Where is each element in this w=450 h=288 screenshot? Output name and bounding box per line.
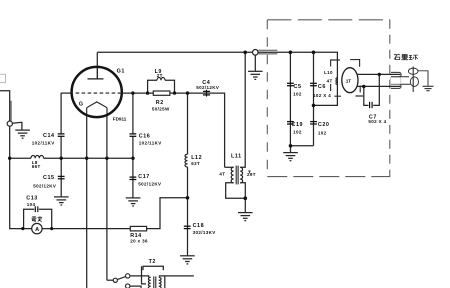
svg-text:2T: 2T (157, 73, 163, 78)
svg-text:63T: 63T (191, 161, 200, 166)
svg-text:302/13KV: 302/13KV (193, 230, 216, 235)
svg-text:C6: C6 (318, 84, 326, 90)
svg-text:C5: C5 (294, 84, 302, 90)
svg-text:102: 102 (318, 130, 327, 135)
svg-text:R2: R2 (156, 100, 164, 106)
svg-text:502/12KV: 502/12KV (33, 183, 56, 188)
svg-text:T2: T2 (149, 259, 156, 265)
svg-text:C17: C17 (138, 174, 150, 180)
svg-text:20 x 36: 20 x 36 (130, 238, 148, 243)
svg-text:102/11KV: 102/11KV (139, 141, 162, 146)
svg-text:1T: 1T (346, 79, 352, 84)
svg-text:C18: C18 (193, 223, 205, 229)
svg-text:L10: L10 (324, 70, 333, 75)
svg-text:502 X 4: 502 X 4 (368, 119, 386, 124)
svg-text:L11: L11 (231, 153, 242, 159)
svg-text:102 X 4: 102 X 4 (313, 93, 331, 98)
svg-text:A: A (35, 227, 39, 233)
svg-text:4T: 4T (327, 79, 333, 84)
svg-text:C20: C20 (318, 122, 330, 128)
svg-text:502/12KV: 502/12KV (196, 85, 219, 90)
svg-text:102: 102 (293, 92, 302, 97)
svg-text:C19: C19 (292, 122, 304, 128)
svg-text:29T: 29T (247, 172, 256, 177)
svg-text:G1: G1 (117, 69, 125, 75)
svg-text:G: G (79, 102, 84, 108)
svg-text:C15: C15 (43, 175, 55, 181)
svg-text:104: 104 (27, 202, 36, 207)
svg-text:50/25W: 50/25W (152, 107, 170, 112)
svg-text:502/12KV: 502/12KV (138, 182, 161, 187)
svg-text:4T: 4T (219, 172, 225, 177)
svg-text:102: 102 (293, 130, 302, 135)
svg-text:102/11KV: 102/11KV (32, 140, 55, 145)
svg-text:C14: C14 (43, 133, 55, 139)
svg-text:FD911: FD911 (113, 117, 127, 122)
svg-text:C13: C13 (26, 196, 38, 202)
svg-text:C16: C16 (139, 134, 151, 140)
svg-text:66T: 66T (32, 164, 41, 169)
